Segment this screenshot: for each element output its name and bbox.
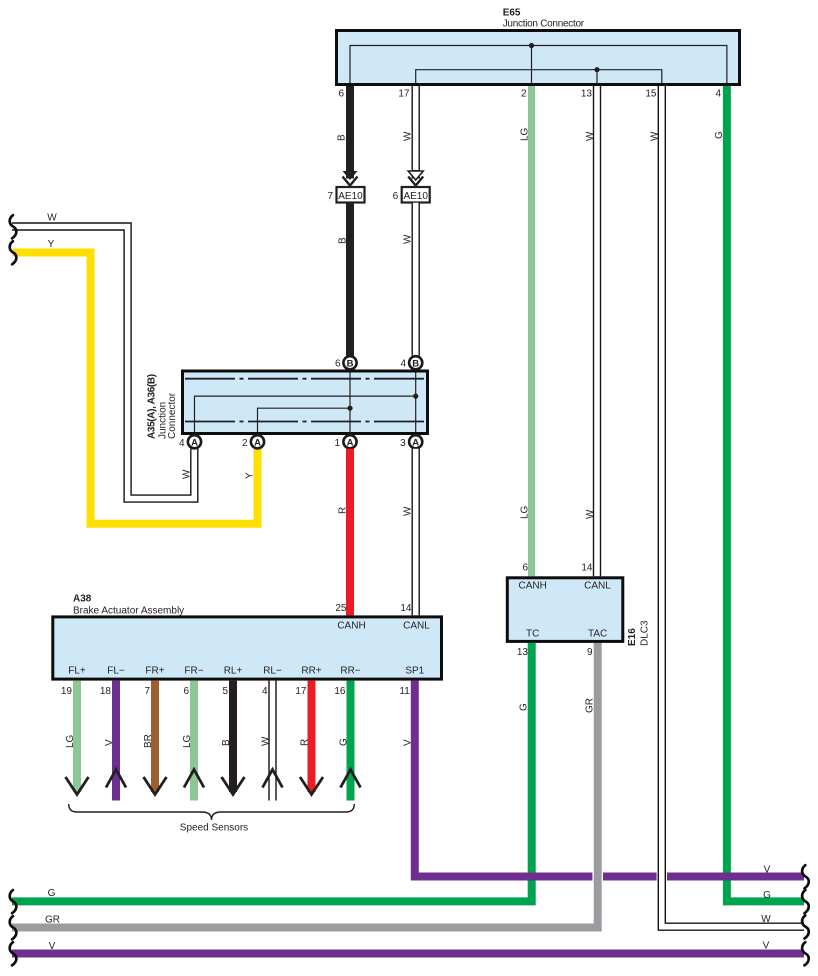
svg-text:6: 6: [522, 563, 528, 574]
svg-text:AE10: AE10: [403, 191, 428, 202]
svg-text:W: W: [403, 506, 414, 516]
svg-text:16: 16: [334, 686, 346, 697]
svg-text:W: W: [585, 131, 596, 141]
svg-text:CANH: CANH: [519, 581, 547, 592]
svg-text:TAC: TAC: [588, 629, 607, 640]
svg-text:G: G: [519, 703, 530, 711]
svg-text:G: G: [338, 738, 349, 746]
svg-text:RL−: RL−: [263, 666, 282, 677]
svg-text:G: G: [763, 890, 771, 901]
svg-text:BR: BR: [143, 734, 154, 748]
svg-text:W: W: [650, 131, 661, 141]
svg-text:A38: A38: [73, 594, 92, 605]
svg-text:W: W: [181, 469, 192, 479]
svg-text:FL+: FL+: [68, 666, 86, 677]
svg-text:15: 15: [645, 89, 657, 100]
svg-text:GR: GR: [585, 698, 596, 713]
svg-text:13: 13: [517, 647, 529, 658]
svg-text:14: 14: [581, 563, 593, 574]
svg-text:2: 2: [521, 89, 527, 100]
svg-text:14: 14: [400, 603, 412, 614]
svg-text:W: W: [403, 234, 414, 244]
svg-text:A: A: [254, 437, 261, 448]
svg-text:E16: E16: [627, 628, 638, 646]
svg-text:B: B: [347, 358, 354, 369]
svg-text:6: 6: [338, 89, 344, 100]
svg-text:G: G: [714, 131, 725, 139]
svg-text:7: 7: [144, 686, 150, 697]
svg-text:4: 4: [715, 89, 721, 100]
svg-text:V: V: [763, 941, 770, 952]
svg-text:19: 19: [61, 686, 73, 697]
svg-text:RR−: RR−: [340, 666, 360, 677]
svg-text:18: 18: [100, 686, 112, 697]
svg-text:3: 3: [400, 438, 406, 449]
svg-text:Brake Actuator Assembly: Brake Actuator Assembly: [73, 606, 184, 617]
svg-text:4: 4: [400, 359, 406, 370]
svg-text:FR−: FR−: [184, 666, 203, 677]
svg-text:CANH: CANH: [337, 621, 365, 632]
svg-text:R: R: [299, 739, 310, 746]
svg-text:V: V: [49, 941, 56, 952]
svg-text:RL+: RL+: [224, 666, 243, 677]
svg-text:B: B: [336, 134, 347, 141]
svg-text:W: W: [260, 736, 271, 746]
svg-text:R: R: [337, 507, 348, 514]
svg-text:1: 1: [334, 438, 340, 449]
svg-text:W: W: [585, 509, 596, 519]
svg-text:CANL: CANL: [403, 621, 430, 632]
svg-text:GR: GR: [45, 915, 60, 926]
svg-text:FR+: FR+: [145, 666, 164, 677]
svg-text:13: 13: [581, 89, 593, 100]
svg-text:W: W: [761, 914, 771, 925]
svg-text:SP1: SP1: [405, 666, 424, 677]
svg-text:DLC3: DLC3: [640, 620, 651, 646]
svg-text:9: 9: [587, 647, 593, 658]
svg-text:LG: LG: [519, 127, 530, 141]
svg-text:E65: E65: [503, 8, 521, 19]
svg-text:AE10: AE10: [338, 191, 363, 202]
svg-text:LG: LG: [65, 734, 76, 748]
svg-text:A: A: [191, 437, 198, 448]
svg-text:B: B: [221, 739, 232, 746]
svg-text:Y: Y: [48, 239, 55, 250]
svg-text:FL−: FL−: [107, 666, 125, 677]
svg-text:Connector: Connector: [167, 392, 178, 439]
svg-text:Speed Sensors: Speed Sensors: [180, 823, 248, 834]
svg-text:LG: LG: [182, 734, 193, 748]
svg-text:G: G: [48, 888, 56, 899]
svg-text:A35(A), A36(B): A35(A), A36(B): [147, 374, 158, 439]
svg-text:CANL: CANL: [584, 581, 611, 592]
svg-text:A: A: [347, 437, 354, 448]
svg-text:B: B: [412, 358, 419, 369]
svg-text:Y: Y: [244, 472, 255, 479]
svg-text:2: 2: [242, 438, 248, 449]
svg-text:LG: LG: [519, 505, 530, 519]
svg-text:6: 6: [335, 359, 341, 370]
svg-text:A: A: [412, 437, 419, 448]
svg-text:17: 17: [295, 686, 307, 697]
svg-text:4: 4: [179, 438, 185, 449]
svg-text:B: B: [337, 237, 348, 244]
svg-text:7: 7: [327, 191, 333, 202]
svg-text:RR+: RR+: [301, 666, 321, 677]
svg-text:5: 5: [222, 686, 228, 697]
svg-text:Junction Connector: Junction Connector: [503, 19, 585, 30]
svg-text:W: W: [47, 213, 57, 224]
svg-text:25: 25: [335, 603, 347, 614]
svg-text:17: 17: [398, 89, 410, 100]
svg-text:4: 4: [262, 686, 268, 697]
svg-text:TC: TC: [526, 629, 539, 640]
svg-text:V: V: [764, 865, 771, 876]
svg-text:V: V: [104, 739, 115, 746]
svg-text:11: 11: [399, 686, 410, 697]
svg-text:V: V: [403, 739, 414, 746]
svg-text:6: 6: [393, 191, 399, 202]
svg-text:6: 6: [183, 686, 189, 697]
